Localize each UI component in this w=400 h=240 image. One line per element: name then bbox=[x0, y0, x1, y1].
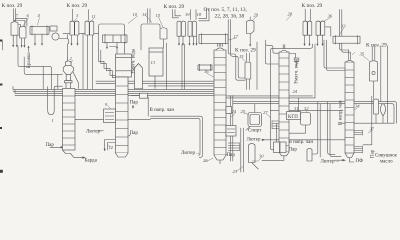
wire: manifold M4 long pair bbox=[233, 102, 397, 124]
wire: manifold M3 pair right of column 16 bbox=[227, 95, 313, 97]
condenser 6 bbox=[20, 26, 27, 38]
svg-text:15: 15 bbox=[239, 54, 244, 59]
svg-text:24: 24 bbox=[232, 109, 237, 114]
wire: drops below condensers 3 and 11 to manifold bbox=[71, 35, 73, 45]
wire: spirit outlet bbox=[246, 127, 250, 131]
wire: inlet elbow top of column 8 bbox=[110, 47, 118, 55]
valve on steam line bbox=[140, 93, 148, 98]
svg-text:В напр. чан: В напр. чан bbox=[150, 108, 175, 113]
wire: column 34 bottom outlet to PF bbox=[350, 158, 355, 162]
wire: staircase pipes down to column 8 tank bbox=[99, 50, 116, 75]
wire: elbow from pair right of label bbox=[199, 9, 207, 19]
wire: column 34 top nipples bbox=[348, 50, 350, 60]
co2 separator 2 bbox=[66, 61, 72, 66]
svg-text:Пар: Пар bbox=[289, 148, 298, 153]
wire: pair down from K poz 29 mid bbox=[147, 9, 149, 23]
vessel 31 small cylinder bbox=[307, 148, 312, 161]
vessel 23 bbox=[249, 143, 256, 162]
svg-text:масло: масло bbox=[380, 160, 393, 165]
wire: drops below condensers 19 with arrows bbox=[178, 36, 180, 44]
wire: left edge stub bbox=[2, 41, 4, 50]
wire: right-bottom boxes feed bbox=[276, 123, 278, 142]
svg-text:35: 35 bbox=[360, 52, 365, 57]
epuration column 8 shaft bbox=[116, 77, 129, 153]
vessel 35 with sight glass bbox=[370, 61, 378, 81]
svg-text:В напр. чан: В напр. чан bbox=[339, 100, 344, 125]
svg-text:Умягч. вода: Умягч. вода bbox=[295, 58, 300, 84]
wire: drops below exchanger 4 bbox=[34, 34, 36, 44]
wire: umyagch voda inlet to dephlegmator bbox=[289, 54, 296, 59]
svg-text:25: 25 bbox=[241, 109, 246, 114]
wire: drops with arrows below condensers 7,6 bbox=[12, 35, 14, 46]
svg-text:27: 27 bbox=[263, 110, 268, 115]
svg-text:Бражка: Бражка bbox=[27, 52, 32, 68]
column 22 left comb bbox=[272, 121, 279, 130]
svg-text:6: 6 bbox=[27, 13, 30, 18]
svg-text:22, 28, 36, 38: 22, 28, 36, 38 bbox=[215, 13, 245, 19]
svg-text:4: 4 bbox=[38, 13, 41, 18]
wire: steam arrow into column 16 bottom bbox=[226, 154, 229, 156]
wire: column 22 bottom outlet bbox=[262, 156, 284, 161]
svg-text:К поз. 29: К поз. 29 bbox=[67, 3, 88, 9]
wire: vessel 29 nipple and drop bbox=[249, 17, 251, 20]
svg-text:19: 19 bbox=[185, 12, 190, 17]
condenser 15 bbox=[160, 28, 167, 39]
svg-text:34: 34 bbox=[355, 104, 360, 109]
svg-text:Пар: Пар bbox=[46, 143, 55, 148]
hydraulic seal vessel 29 bbox=[247, 20, 255, 33]
wire: pipes down from K poz.29 left bbox=[13, 9, 15, 21]
wire: manifold M2 bbox=[13, 88, 214, 90]
wire: column 16 dome nipple bbox=[218, 41, 220, 47]
svg-text:К поз. 29: К поз. 29 bbox=[302, 3, 323, 9]
rectifying column 22 bbox=[279, 52, 289, 152]
wire: manifold M9 luter to column 34 bbox=[263, 139, 345, 141]
wire: vessel 15 top nipples bbox=[246, 53, 248, 62]
wire: line y110 bbox=[271, 109, 344, 111]
arrowheads group bbox=[12, 43, 323, 49]
condenser 19a (double) bbox=[177, 21, 181, 36]
scan ticks left edge bbox=[0, 40, 3, 173]
wire: separator feed from above bbox=[67, 57, 69, 62]
svg-text:Пар: Пар bbox=[130, 101, 139, 106]
small exchanger 20 bbox=[198, 65, 212, 70]
svg-text:К поз. 29: К поз. 29 bbox=[366, 43, 387, 49]
svg-text:31: 31 bbox=[294, 106, 299, 111]
heat exchanger 33 bbox=[333, 36, 360, 43]
wire: condenser 15 drop bbox=[163, 39, 165, 48]
svg-text:Пар: Пар bbox=[130, 131, 139, 136]
svg-text:1: 1 bbox=[52, 118, 54, 123]
svg-text:Лютер→: Лютер→ bbox=[321, 160, 340, 165]
svg-text:17: 17 bbox=[234, 34, 239, 39]
wire: luter arrow left area bbox=[98, 130, 103, 132]
KGP box bbox=[287, 112, 301, 120]
wire: ot poz. feed pair down to vessel 15 bbox=[228, 20, 245, 81]
svg-text:К поз. 29: К поз. 29 bbox=[2, 3, 23, 9]
wire: vertical pair near vessel 23 bbox=[240, 128, 242, 172]
svg-text:2: 2 bbox=[70, 56, 73, 61]
wire: manifold M5 pair to luter outlet bbox=[151, 116, 203, 157]
column 16 reboiler comb bbox=[228, 143, 240, 152]
wire: top feed pair condenser 3 bbox=[72, 9, 74, 21]
fusel column 34 bbox=[345, 62, 354, 153]
wire: exchanger 12 drain bbox=[105, 140, 116, 151]
wire: loop around exchanger 8 bbox=[99, 24, 125, 50]
side heater 9 bbox=[104, 109, 116, 123]
wire: steam arrow into column 8 mid bbox=[132, 105, 134, 107]
vessel 15 thin bbox=[245, 62, 251, 79]
wire: manifold M7 bbox=[341, 122, 395, 124]
heat exchanger 8 bbox=[103, 35, 128, 42]
svg-text:10: 10 bbox=[133, 12, 138, 17]
wire: elbow condenser to exchanger 33 bbox=[325, 27, 331, 36]
svg-text:Барда: Барда bbox=[85, 159, 98, 164]
svg-text:Лютер: Лютер bbox=[86, 129, 100, 134]
wire: verticals down to manifold from condensers bbox=[166, 43, 168, 89]
column 16 side pocket upper bbox=[226, 107, 232, 114]
epuration column 8 upper tank bbox=[116, 54, 132, 77]
wire: drops below condensers 36 with arrows bbox=[304, 35, 306, 45]
svg-text:9: 9 bbox=[105, 102, 108, 107]
svg-text:15: 15 bbox=[156, 13, 161, 18]
svg-text:В напр. чан: В напр. чан bbox=[289, 140, 314, 145]
wire: U-loop left of column 1 bbox=[48, 87, 55, 115]
condenser 36b (double) bbox=[316, 21, 320, 35]
svg-text:От поз. 5, 7, 11, 13,: От поз. 5, 7, 11, 13, bbox=[204, 7, 248, 13]
condenser 36a (double) bbox=[303, 21, 307, 35]
condenser 11 (double) bbox=[85, 21, 89, 35]
wire: long vertical x83 bbox=[82, 33, 84, 88]
vessel 38 bbox=[374, 99, 379, 114]
wire: manifold M8 bbox=[284, 132, 305, 134]
svg-text:13: 13 bbox=[151, 60, 156, 65]
column 16 side pocket lower bbox=[226, 126, 236, 137]
right-bottom box b bbox=[280, 142, 286, 153]
svg-text:36: 36 bbox=[328, 14, 333, 19]
condenser 7 bbox=[11, 22, 18, 36]
wire: drops below exchanger 8 bbox=[106, 42, 108, 48]
svg-text:18: 18 bbox=[197, 12, 202, 17]
wire: elbow to exchanger 4 bbox=[16, 19, 27, 27]
svg-text:К поз. 29: К поз. 29 bbox=[235, 48, 256, 54]
wire: barda outlet from column 1 bbox=[71, 154, 83, 158]
cone tank 14 bbox=[135, 64, 143, 89]
svg-text:12: 12 bbox=[109, 145, 114, 150]
svg-text:33: 33 bbox=[341, 24, 346, 29]
svg-text:28: 28 bbox=[288, 12, 293, 17]
wire: pair right of column 16 down bbox=[230, 96, 232, 162]
wire: feeds to condensers 19 bbox=[173, 10, 179, 18]
wire: staircase to column 22 top bbox=[265, 40, 279, 53]
wire: steam arrow lower bbox=[129, 135, 131, 136]
pump unit 5 bbox=[50, 26, 57, 31]
heat exchanger 17 bbox=[199, 34, 228, 43]
svg-text:32: 32 bbox=[304, 106, 309, 111]
svg-text:КГП: КГП bbox=[288, 115, 298, 120]
wire: steam arrow into column 1 bottom bbox=[50, 146, 61, 148]
wire: luter arrow into column 34 bottom bbox=[335, 159, 343, 161]
epuration column 16 bbox=[214, 50, 226, 155]
wire: brazhka feed lines bbox=[18, 46, 52, 89]
wire: vertical from vessel 38 down bbox=[375, 114, 377, 123]
svg-text:24: 24 bbox=[293, 89, 298, 94]
spirit cooler 25 bbox=[248, 113, 262, 127]
wire: pair going down to column 34 left inlet bbox=[324, 40, 345, 68]
wire: far right verticals bbox=[380, 46, 382, 102]
condenser 3 (double) bbox=[70, 21, 74, 35]
wire: spirit cooler feed bbox=[254, 104, 256, 113]
svg-text:Умягч. вода: Умягч. вода bbox=[132, 48, 137, 74]
wire: single line from column 1 right bbox=[75, 119, 151, 121]
wire: vessel 35 drop to vessel 38 bbox=[373, 81, 375, 99]
condenser 19b (double) bbox=[188, 21, 192, 36]
svg-text:Лютер: Лютер bbox=[247, 138, 261, 143]
wire: branch pair B down to luter line bbox=[328, 102, 335, 155]
wire: pipes down from K poz 29 right bbox=[304, 9, 306, 21]
wire: steam line to column 8 with valve bbox=[132, 95, 140, 97]
svg-text:ПФ: ПФ bbox=[356, 159, 364, 164]
svg-text:Спирт: Спирт bbox=[248, 129, 262, 134]
wire: vessel 15 drops bbox=[246, 79, 248, 90]
wire: pair from y9 down elbow to column 34 top nipple bbox=[340, 10, 349, 51]
sampler vessel 26r bbox=[301, 113, 311, 126]
svg-text:26: 26 bbox=[203, 158, 208, 163]
water tank 13 bbox=[149, 48, 163, 76]
wire: branch pair A down to vessel 31 bbox=[312, 102, 318, 154]
wire: kgp connection bbox=[287, 115, 290, 117]
wire: big loop left of column 22 bottom bbox=[271, 110, 274, 149]
valve on voda line bbox=[294, 58, 299, 62]
wire: horizontal collector y34 bbox=[63, 32, 99, 34]
wire: manifold M1 bbox=[96, 80, 214, 82]
mash column 1 bbox=[63, 89, 76, 151]
svg-text:14: 14 bbox=[142, 12, 147, 17]
svg-text:30: 30 bbox=[259, 154, 264, 159]
svg-text:23: 23 bbox=[233, 169, 238, 174]
svg-text:11: 11 bbox=[92, 14, 96, 19]
wire: line to separator top bbox=[67, 35, 69, 62]
right-bottom box a bbox=[274, 142, 280, 153]
wire: arrows to right-bottom boxes bbox=[286, 140, 287, 142]
svg-text:Сивушное: Сивушное bbox=[375, 153, 398, 158]
wire: diagonal from separator bbox=[73, 72, 79, 89]
leader lines for number labels bbox=[14, 16, 372, 172]
svg-text:37: 37 bbox=[370, 127, 375, 132]
svg-text:7: 7 bbox=[16, 13, 19, 18]
wire: vessel 35 feed pair from K poz 29 bbox=[371, 46, 373, 60]
wire: long vertical right of column 34 bbox=[363, 96, 372, 145]
wire: vessel 23 diagonal outlet bbox=[252, 163, 259, 170]
column 34 combs right bbox=[354, 130, 363, 154]
svg-text:Лютер→: Лютер→ bbox=[181, 151, 200, 156]
svg-text:16: 16 bbox=[204, 69, 209, 74]
svg-text:29: 29 bbox=[254, 13, 259, 18]
wire: second loop top bbox=[141, 24, 160, 50]
svg-text:3: 3 bbox=[76, 13, 79, 18]
wire: brazhka arrow up bbox=[28, 47, 30, 52]
wire: drops from exchanger 17 to column 16 dome bbox=[217, 43, 219, 46]
svg-text:Пар: Пар bbox=[227, 153, 236, 158]
svg-text:К поз. 29: К поз. 29 bbox=[164, 4, 185, 10]
lantern flask 37 bbox=[380, 104, 385, 116]
wire: long vertical x257 bbox=[256, 42, 258, 90]
heat exchanger 4 bbox=[30, 26, 49, 34]
